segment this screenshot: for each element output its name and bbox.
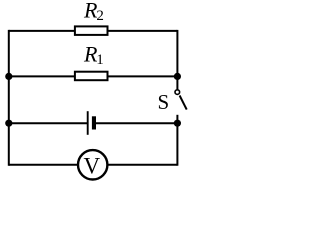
wire top (node between R2 terminals)	[9, 30, 178, 32]
node A: junction dot left upper	[5, 73, 12, 80]
resistor R2 body	[75, 26, 108, 35]
wire right vertical lower (switch stub to bottom corner)	[176, 115, 178, 166]
battery cell: long thin positive plate	[87, 111, 89, 135]
wire bottom (voltmeter branch)	[9, 164, 178, 166]
wire left vertical	[8, 30, 10, 166]
node C: junction dot right upper	[174, 73, 181, 80]
wire branch battery left	[9, 122, 87, 124]
resistor R1 body	[75, 72, 108, 81]
voltmeter V body circle	[78, 150, 107, 179]
node D: junction dot right lower	[174, 120, 181, 127]
wire branch R1	[9, 75, 178, 77]
switch S pivot circle	[175, 90, 180, 95]
switch S lever (open)	[180, 96, 187, 110]
battery cell: short thick negative plate	[92, 116, 96, 129]
svg-text:1: 1	[96, 52, 104, 68]
node B: junction dot left lower	[5, 120, 12, 127]
svg-text:V: V	[84, 154, 101, 179]
svg-text:S: S	[158, 90, 170, 114]
wire right vertical upper (top corner to switch pivot)	[176, 30, 178, 90]
wire branch battery right	[96, 122, 177, 124]
svg-text:2: 2	[96, 8, 104, 24]
